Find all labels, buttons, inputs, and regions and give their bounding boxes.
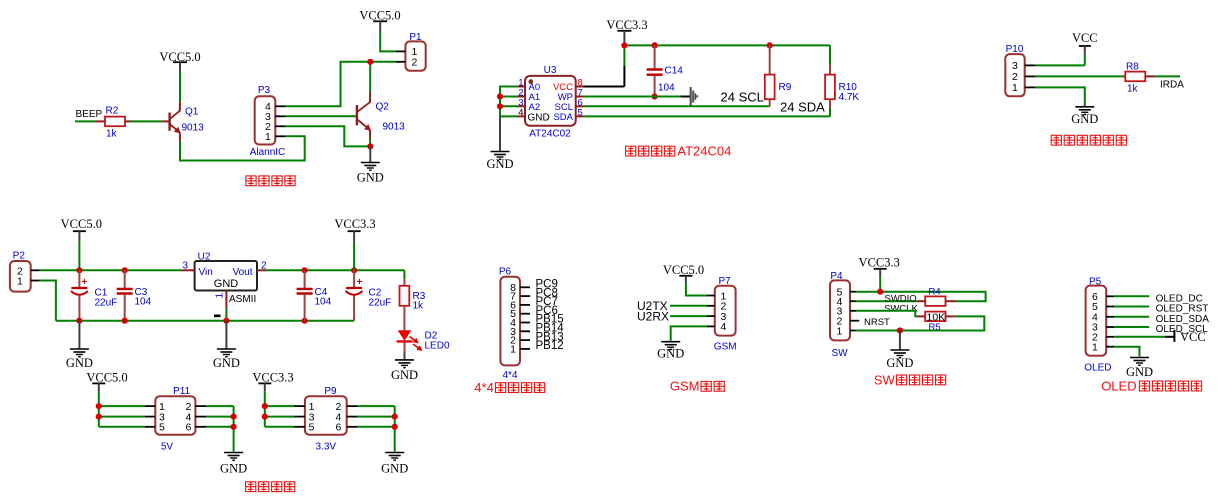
resistor R8 xyxy=(1125,62,1155,95)
connector P5 xyxy=(1084,277,1114,374)
svg-text:AlannIC: AlannIC xyxy=(250,147,286,158)
wire VCC5.0 to P1 pin1 xyxy=(380,33,395,52)
svg-text:1: 1 xyxy=(1092,341,1098,353)
wire U3 SDA to R10 xyxy=(584,115,831,117)
junction node Q2 emitter xyxy=(367,143,373,149)
svg-text:4*4: 4*4 xyxy=(474,380,494,395)
title 4*4矩阵键盘 xyxy=(474,380,544,395)
capacitor C1 xyxy=(71,270,117,320)
ground GND (SW) xyxy=(886,331,913,370)
svg-text:GND: GND xyxy=(886,356,913,370)
resistor R9 xyxy=(765,45,792,106)
svg-text:VCC: VCC xyxy=(1180,330,1206,344)
junction node at P1 pin2 xyxy=(367,59,373,65)
wire BEEP to R2 xyxy=(75,120,105,122)
junction P11 pin4 xyxy=(231,414,237,420)
svg-text:104: 104 xyxy=(135,297,152,308)
transistor Q1 xyxy=(170,102,205,141)
svg-text:GND: GND xyxy=(357,171,384,185)
svg-text:9013: 9013 xyxy=(383,122,406,133)
svg-text:5V: 5V xyxy=(161,442,174,453)
resistor R2 xyxy=(105,106,131,140)
junction U2 gnd xyxy=(223,318,229,324)
svg-text:BEEP: BEEP xyxy=(76,109,103,120)
resistor R5 xyxy=(917,312,955,334)
svg-text:P5: P5 xyxy=(1089,277,1102,288)
pin 4 U3 xyxy=(517,107,525,118)
svg-text:GND: GND xyxy=(391,368,418,382)
wire U2TX to P7 pin2 xyxy=(670,305,707,307)
svg-text:SW: SW xyxy=(831,348,848,359)
svg-text:P1: P1 xyxy=(409,32,422,43)
junction P9 pin3 xyxy=(262,414,268,420)
svg-text:VCC: VCC xyxy=(1072,31,1098,45)
wire Q2 collector to node xyxy=(369,62,371,92)
wire top rail right xyxy=(266,269,404,271)
ground GND (D2) xyxy=(391,341,418,381)
junction C4 bottom xyxy=(302,318,308,324)
svg-text:VCC5.0: VCC5.0 xyxy=(663,263,704,277)
wire P7 pin4 to GND xyxy=(671,326,707,340)
title SW调试接口 xyxy=(874,372,946,387)
connector P11 xyxy=(145,386,207,453)
svg-text:P9: P9 xyxy=(324,386,337,397)
svg-text:GSM: GSM xyxy=(714,342,737,353)
junction A2 xyxy=(497,103,503,109)
wire VCC3.3 down to U3 pin8 xyxy=(584,45,625,86)
regulator U2 xyxy=(195,252,257,291)
svg-text:R4: R4 xyxy=(929,286,941,297)
resistor R3 xyxy=(400,279,426,330)
title 报警模块 xyxy=(246,176,295,186)
svg-text:4.7K: 4.7K xyxy=(839,92,860,103)
wire VCC5.0 drop xyxy=(78,242,80,270)
junction P9 pin4 xyxy=(392,414,398,420)
title GSM模块 xyxy=(670,379,724,394)
wire P5 pin5 xyxy=(1114,306,1149,308)
svg-text:R8: R8 xyxy=(1126,62,1139,73)
wire VCC5.0 to Q1 collector xyxy=(179,72,181,102)
junction A1 xyxy=(497,93,503,99)
svg-text:SWCLK: SWCLK xyxy=(884,303,918,314)
svg-text:1: 1 xyxy=(265,131,271,143)
wire U3 SCL to R9 xyxy=(584,105,770,107)
capacitor C14 xyxy=(647,45,684,96)
svg-text:5: 5 xyxy=(309,422,315,434)
ground GND (GSM) xyxy=(657,342,684,361)
svg-text:NRST: NRST xyxy=(864,317,890,328)
svg-text:IRDA: IRDA xyxy=(1160,80,1184,91)
wire R2 to Q1 base xyxy=(131,120,169,122)
svg-text:22uF: 22uF xyxy=(95,298,118,309)
svg-text:1: 1 xyxy=(510,343,516,355)
power VCC5.0 (P11) xyxy=(86,371,127,392)
wire VCC5.0 to P7 pin1 xyxy=(686,283,707,295)
svg-text:GND: GND xyxy=(66,356,93,370)
svg-text:GND: GND xyxy=(213,356,240,370)
svg-text:9013: 9013 xyxy=(182,123,205,134)
connector P7 xyxy=(707,276,737,353)
title 电源模块 xyxy=(246,482,295,492)
svg-text:GND: GND xyxy=(1126,365,1153,379)
junction VCC5.0/C1 xyxy=(76,267,82,273)
wire pin4 to R4 xyxy=(856,300,916,302)
svg-text:U3: U3 xyxy=(544,65,557,76)
svg-text:4*4: 4*4 xyxy=(502,370,517,381)
svg-text:6: 6 xyxy=(336,422,342,434)
junction C3 bottom xyxy=(122,318,128,324)
svg-text:1k: 1k xyxy=(413,301,425,312)
svg-text:1k: 1k xyxy=(106,129,118,140)
pin 5 U3 xyxy=(576,107,584,118)
svg-text:GSM: GSM xyxy=(670,379,700,394)
svg-text:GND: GND xyxy=(1071,112,1098,126)
svg-text:Vin: Vin xyxy=(199,267,213,278)
junction C2/VCC3.3 xyxy=(351,267,357,273)
junction P9 pin6 xyxy=(392,424,398,430)
wire U2RX to P7 pin3 xyxy=(670,315,707,317)
svg-text:1: 1 xyxy=(837,325,843,337)
svg-text:VCC5.0: VCC5.0 xyxy=(61,217,102,231)
svg-text:OLED: OLED xyxy=(1084,363,1111,374)
transistor Q2 xyxy=(357,91,405,138)
wire P11 right pins to GND xyxy=(206,406,233,451)
wire U3 left pins bus xyxy=(500,86,517,117)
wire VCC3.3 to pin5 xyxy=(879,277,881,291)
ground GND (P10) xyxy=(1071,103,1098,126)
svg-text:Q1: Q1 xyxy=(185,107,199,118)
junction R9 top xyxy=(767,42,773,48)
power VCC5.0 (Q1 collector) xyxy=(159,50,200,72)
junction C1 bottom xyxy=(76,318,82,324)
svg-text:P10: P10 xyxy=(1006,44,1024,55)
svg-text:Q2: Q2 xyxy=(376,102,390,113)
junction C4 top xyxy=(302,267,308,273)
svg-text:+: + xyxy=(82,277,88,288)
wire VCC3.3 to P9 left pins xyxy=(265,391,295,427)
junction P11 pin3 xyxy=(96,414,102,420)
power VCC3.3 (SW) xyxy=(859,256,900,278)
wire top rail left xyxy=(40,269,182,271)
resistor R4 xyxy=(917,286,957,306)
minus mark xyxy=(214,314,221,317)
pin 1 U2 xyxy=(215,291,227,321)
pin 2 U3 xyxy=(517,88,525,99)
power VCC5.0 (power module) xyxy=(61,217,102,242)
wire P5 pin3 xyxy=(1114,326,1149,328)
ground GND (P5) xyxy=(1126,358,1153,380)
wire P5 pin1 to GND xyxy=(1114,347,1139,357)
svg-text:U2: U2 xyxy=(198,252,211,263)
wire Q2 emitter to ground node xyxy=(369,139,371,147)
connector P1 xyxy=(396,32,426,71)
junction P11 pin6 xyxy=(231,424,237,430)
svg-text:LED0: LED0 xyxy=(425,341,450,352)
wire VCC rail (storage) xyxy=(624,44,830,46)
svg-text:C14: C14 xyxy=(665,66,684,77)
svg-text:P7: P7 xyxy=(718,276,731,287)
wire pin5 rail xyxy=(856,292,985,302)
wire P10 pin1 to GND xyxy=(1035,87,1085,103)
ground earth (WP) xyxy=(691,87,698,106)
power VCC (P5) xyxy=(1174,330,1205,344)
wire pin3 to R5 xyxy=(856,311,916,317)
power VCC5.0 (P1) xyxy=(359,9,400,33)
svg-text:22uF: 22uF xyxy=(369,298,392,309)
ground GND (C1) xyxy=(66,321,93,370)
junction C14 bottom xyxy=(652,93,658,99)
pin 8 U3 xyxy=(576,78,584,89)
svg-text:104: 104 xyxy=(658,83,675,94)
connector P6 xyxy=(499,267,530,382)
power VCC3.3 (power module) xyxy=(334,217,375,242)
power VCC5.0 (GSM) xyxy=(663,263,704,284)
wire VCC3.3 drop xyxy=(353,242,355,270)
svg-text:GND: GND xyxy=(528,112,550,123)
resistor R10 xyxy=(825,45,859,116)
svg-text:GND: GND xyxy=(381,462,408,476)
pin 7 U3 xyxy=(576,88,584,99)
svg-text:GND: GND xyxy=(220,462,247,476)
pin 6 U3 xyxy=(576,97,584,108)
svg-text:ASMII: ASMII xyxy=(229,294,256,305)
capacitor C4 xyxy=(297,270,332,320)
svg-text:AT24C04: AT24C04 xyxy=(677,144,731,159)
svg-text:GND: GND xyxy=(486,157,513,171)
svg-text:PB12: PB12 xyxy=(536,340,564,352)
wire P3 pin2 to Q2 emitter node xyxy=(285,126,370,146)
ground GND (alarm) xyxy=(357,146,384,184)
junction C14 top xyxy=(652,42,658,48)
wire P3 pin3 to Q2 base xyxy=(285,115,356,117)
diode D2 LED0 xyxy=(397,330,450,351)
wire rail to R3 xyxy=(403,270,405,279)
capacitor C3 xyxy=(117,270,152,320)
pin 3 U3 xyxy=(517,97,525,108)
svg-text:P4: P4 xyxy=(830,271,843,282)
svg-text:1: 1 xyxy=(1012,82,1018,94)
title OLED液晶显示屏 xyxy=(1101,378,1201,393)
svg-text:P2: P2 xyxy=(13,251,26,262)
wire R5 to pin1 rail xyxy=(856,316,984,330)
wire P2 pin1 down xyxy=(40,281,56,321)
connector P4 xyxy=(830,271,859,359)
power VCC3.3 (P9) xyxy=(252,371,293,392)
junction C3 top xyxy=(122,267,128,273)
svg-text:GND: GND xyxy=(657,347,684,361)
junction pin1/GND xyxy=(897,327,903,333)
svg-text:SW: SW xyxy=(874,372,896,387)
connector P3 xyxy=(250,85,286,158)
svg-text:24 SCL: 24 SCL xyxy=(721,90,764,105)
wire R8 to IRDA xyxy=(1156,75,1180,77)
wire P10 pin3 to VCC xyxy=(1035,55,1085,66)
junction VCC3.3/pin5 xyxy=(877,289,883,295)
ground GND (P11) xyxy=(220,453,247,476)
svg-text:R9: R9 xyxy=(779,82,792,93)
svg-text:U2RX: U2RX xyxy=(637,309,669,323)
svg-text:P3: P3 xyxy=(258,85,271,96)
wire P3 pin4 to P1 pin2 xyxy=(285,62,395,107)
op-amp U3 AT24C02 body xyxy=(525,65,576,140)
wire P5 pin4 xyxy=(1114,316,1149,318)
junction P11 pin1 xyxy=(96,403,102,409)
svg-text:GND: GND xyxy=(214,278,239,290)
svg-text:R2: R2 xyxy=(106,106,119,117)
wire VCC5.0 to P11 left pins xyxy=(99,391,145,427)
wire P10 pin2 to R8 xyxy=(1035,75,1125,77)
svg-text:104: 104 xyxy=(315,297,332,308)
ground GND (U2) xyxy=(213,321,240,370)
connector P2 xyxy=(10,251,40,292)
svg-text:4: 4 xyxy=(721,321,727,333)
power VCC (P10) xyxy=(1072,31,1098,55)
svg-text:Vout: Vout xyxy=(232,267,252,278)
svg-text:SDA: SDA xyxy=(553,112,573,123)
wire P5 pin2 to VCC xyxy=(1114,336,1174,338)
svg-text:VCC3.3: VCC3.3 xyxy=(334,217,375,231)
svg-text:P6: P6 xyxy=(499,267,512,278)
svg-text:2: 2 xyxy=(412,57,418,69)
ground GND (P9) xyxy=(381,453,408,476)
capacitor C2 xyxy=(346,270,392,320)
svg-text:OLED: OLED xyxy=(1101,378,1136,393)
svg-text:+: + xyxy=(357,277,363,288)
wire P9 right pins to GND xyxy=(357,406,395,451)
svg-text:1: 1 xyxy=(215,293,226,299)
svg-text:6: 6 xyxy=(186,422,192,434)
wire P5 pin6 xyxy=(1114,295,1149,297)
pin 1 U3 xyxy=(517,78,525,89)
svg-text:1k: 1k xyxy=(1127,84,1139,95)
power VCC3.3 (U3) xyxy=(606,18,647,45)
wire bottom rail xyxy=(56,320,354,322)
title 电红外传感器 xyxy=(1051,135,1126,145)
svg-text:24 SDA: 24 SDA xyxy=(780,99,825,114)
connector P10 xyxy=(1005,44,1035,97)
pin 3 U2 xyxy=(181,260,194,271)
svg-text:3.3V: 3.3V xyxy=(316,442,337,453)
wire U3 WP to earth xyxy=(584,96,691,98)
svg-text:VCC3.3: VCC3.3 xyxy=(859,256,900,270)
junction P9 pin1 xyxy=(262,403,268,409)
svg-text:P11: P11 xyxy=(173,386,190,397)
junction VCC3.3 drop xyxy=(621,42,627,48)
pin 2 U2 xyxy=(257,260,267,271)
connector P9 xyxy=(295,386,358,453)
wire Q1 emitter to P3 pin1 xyxy=(180,136,305,160)
ground GND (U3) xyxy=(486,116,513,171)
svg-text:1: 1 xyxy=(17,275,23,287)
svg-text:5: 5 xyxy=(159,422,165,434)
title 存储芯片AT24C04 xyxy=(626,144,732,159)
svg-text:AT24C02: AT24C02 xyxy=(529,129,571,140)
